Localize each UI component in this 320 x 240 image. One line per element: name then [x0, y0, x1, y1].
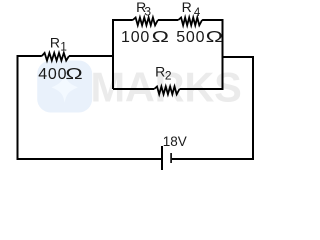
- svg-text:100: 100: [121, 29, 150, 46]
- svg-text:Ω: Ω: [65, 65, 82, 83]
- svg-text:500: 500: [176, 29, 205, 46]
- svg-text:3: 3: [144, 5, 151, 19]
- svg-text:R: R: [50, 34, 60, 50]
- svg-text:4: 4: [194, 7, 201, 19]
- svg-text:18V: 18V: [163, 134, 187, 149]
- svg-text:R: R: [182, 0, 192, 15]
- svg-text:Ω: Ω: [152, 28, 169, 46]
- svg-text:Ω: Ω: [206, 28, 223, 46]
- svg-text:1: 1: [60, 39, 67, 53]
- svg-text:R: R: [155, 64, 165, 80]
- svg-text:2: 2: [165, 69, 172, 83]
- svg-text:400: 400: [38, 66, 67, 83]
